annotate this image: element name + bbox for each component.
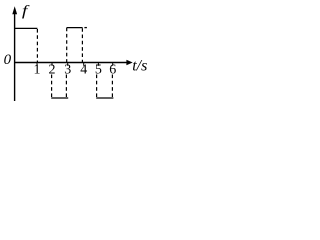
svg-text:0: 0 [4, 52, 12, 68]
svg-text:3: 3 [64, 63, 71, 78]
pulse 3 right edge (dashed) [81, 28, 83, 62]
tick 2 [51, 63, 53, 66]
pulse 2 right edge (dashed) [65, 75, 67, 98]
pulse 1 top edge (solid) [14, 27, 37, 29]
pulse 1 right edge (dashed) [36, 29, 38, 62]
background [0, 0, 148, 105]
tick 3 [67, 63, 69, 66]
x-axis [14, 62, 128, 64]
pulse 4 right edge (dashed) [111, 75, 113, 98]
svg-text:t/s: t/s [132, 57, 147, 74]
y-axis [14, 13, 16, 101]
pulse 4 bottom edge (solid) [96, 97, 113, 99]
pulse 2 left edge (dashed) [51, 75, 53, 98]
pulse 4 left edge (dashed) [96, 75, 98, 98]
pulse 3 top edge (solid with end dash) [67, 27, 83, 29]
tick 6 [112, 63, 114, 66]
tick 4 [83, 63, 85, 66]
svg-text:1: 1 [34, 63, 41, 78]
y-axis arrowhead [12, 6, 17, 14]
tick 5 [97, 63, 99, 66]
waveform graph f vs t/s [0, 0, 148, 105]
x-axis arrowhead [126, 60, 132, 65]
svg-text:4: 4 [80, 63, 87, 78]
svg-text:5: 5 [95, 63, 102, 78]
pulse 2 bottom edge (solid) [51, 97, 68, 99]
tick 1 [36, 63, 38, 66]
pulse 3 left edge (dashed) [66, 28, 68, 62]
